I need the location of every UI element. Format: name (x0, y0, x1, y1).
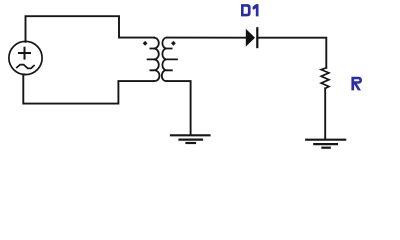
diode D1 (246, 28, 257, 47)
wire diode cathode to resistor top (257, 38, 326, 68)
wire resistor bottom to ground (324, 88, 326, 139)
transformer secondary winding (162, 38, 177, 82)
wire secondary top to diode anode (167, 37, 246, 39)
phase dot primary (143, 41, 148, 46)
ac source (9, 41, 42, 74)
resistor R (321, 68, 329, 89)
transformer primary winding (148, 38, 160, 82)
wire secondary bottom to ground (167, 81, 191, 135)
phase dot secondary (171, 41, 176, 46)
wire bottom rail (source bottom to transformer primary bottom) (23, 74, 154, 103)
ground (transformer secondary) (171, 135, 210, 143)
ground (load) (306, 140, 345, 148)
label R (351, 77, 362, 91)
label D1 (241, 4, 259, 16)
wire top rail (source top to transformer primary top) (26, 16, 154, 42)
